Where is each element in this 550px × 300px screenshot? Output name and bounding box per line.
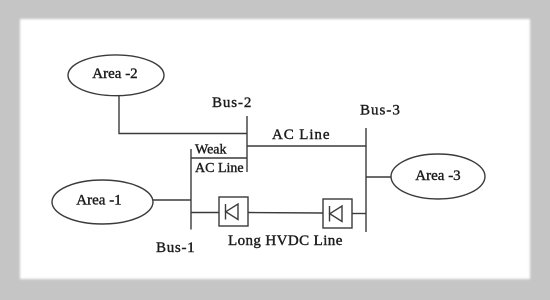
svg-text:AC Line: AC Line: [195, 161, 244, 176]
svg-text:Long HVDC Line: Long HVDC Line: [228, 233, 343, 249]
svg-text:Weak: Weak: [195, 143, 227, 158]
svg-text:Bus-1: Bus-1: [156, 240, 195, 256]
svg-text:Area -3: Area -3: [415, 168, 460, 184]
svg-text:Bus-3: Bus-3: [360, 103, 401, 119]
svg-text:AC Line: AC Line: [272, 127, 330, 143]
svg-text:Bus-2: Bus-2: [212, 95, 252, 111]
svg-text:Area -1: Area -1: [76, 193, 121, 209]
svg-text:Area -2: Area -2: [92, 66, 137, 82]
